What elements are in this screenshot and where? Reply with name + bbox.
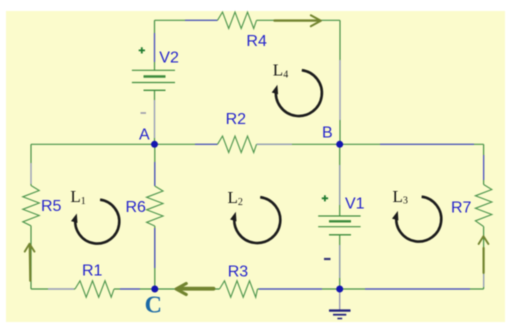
svg-text:V2: V2 (159, 49, 179, 66)
svg-text:A: A (139, 127, 150, 144)
svg-text:R4: R4 (246, 33, 267, 50)
svg-text:R7: R7 (451, 200, 472, 217)
svg-text:R6: R6 (126, 199, 147, 216)
svg-text:R5: R5 (41, 198, 62, 215)
svg-text:V1: V1 (345, 195, 365, 212)
svg-text:R3: R3 (228, 264, 249, 281)
svg-text:R1: R1 (82, 262, 103, 279)
svg-text:R2: R2 (226, 111, 247, 128)
svg-text:C: C (145, 293, 162, 319)
svg-text:B: B (322, 125, 333, 142)
